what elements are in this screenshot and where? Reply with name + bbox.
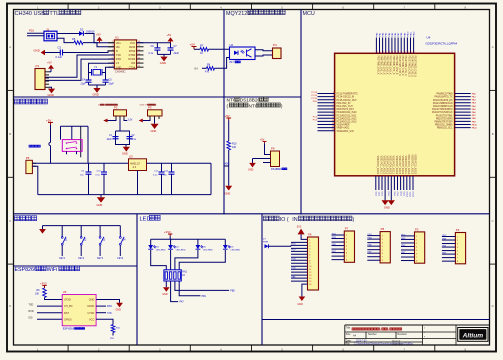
svg-text:GND: GND: [48, 93, 54, 97]
svg-text:Number: Number: [368, 333, 377, 336]
svg-text:GND: GND: [116, 66, 122, 69]
label esp8266 module: [63, 328, 85, 331]
mcu left pin numbers: [332, 92, 334, 131]
connector J1 label: [29, 27, 50, 32]
svg-text:IN: IN: [292, 217, 297, 223]
svg-text:1K: 1K: [200, 52, 203, 55]
title block grid: [345, 325, 490, 345]
svg-text:B: B: [9, 132, 11, 136]
wire opto out2: [255, 55, 273, 56]
svg-text:CTS#: CTS#: [129, 66, 136, 69]
mcu bottom pin names: [376, 154, 416, 174]
svg-text:PB5/I2C0_SMBA: PB5/I2C0_SMBA: [435, 124, 453, 127]
svg-text:RI#: RI#: [131, 62, 136, 65]
svg-text:3: 3: [333, 98, 334, 100]
wire esp pin2: [96, 306, 112, 308]
svg-text:12: 12: [138, 57, 140, 59]
LED D6: [179, 239, 240, 270]
svg-text:6: 6: [333, 108, 334, 110]
svg-text:PB4/TIM1_CH1_X: PB4/TIM1_CH1_X: [379, 56, 381, 75]
svg-text:RTS#: RTS#: [129, 50, 136, 53]
svg-text:PA10: PA10: [472, 123, 478, 126]
svg-text:D: D: [9, 304, 11, 308]
wire led rail: [151, 236, 226, 239]
svg-text:PB3/TIM0_CH0_X: PB3/TIM0_CH0_X: [376, 56, 378, 75]
svg-text:B: B: [492, 132, 494, 136]
svg-text:15: 15: [138, 45, 140, 47]
svg-text:13: 13: [138, 53, 140, 55]
ic U1 pin numbers: [112, 41, 140, 67]
capacitor C11: [153, 163, 165, 194]
svg-text:12: 12: [332, 126, 334, 128]
gnd ds18b20: [248, 159, 256, 172]
svg-text:36: 36: [384, 51, 386, 53]
svg-text:KEY4: KEY4: [117, 258, 124, 260]
svg-text:Size: Size: [346, 333, 351, 336]
LED D4: [168, 239, 186, 270]
optocoupler U2: [230, 43, 256, 64]
switch SW1 label: [29, 145, 40, 147]
svg-text:RXD: RXD: [107, 306, 112, 308]
ic U1 pin names: [116, 42, 136, 69]
gnd main: [97, 195, 106, 207]
capacitor C12: [163, 163, 175, 194]
wire regulator gnd: [137, 171, 139, 195]
svg-text:UD+: UD+: [116, 42, 122, 45]
wire esp gnd pin: [96, 300, 123, 312]
capacitor C6: [149, 43, 161, 55]
capacitor C7: [168, 43, 180, 55]
connector P8 header: [367, 227, 390, 263]
svg-text:PC2/ADC012_IN12: PC2/ADC012_IN12: [337, 117, 358, 120]
wire xo drop: [106, 67, 115, 70]
wire ds18b20 vcc: [265, 143, 271, 154]
svg-text:P2: P2: [114, 106, 118, 110]
switch SW1: [62, 140, 82, 152]
title MCU-IO section: [264, 216, 355, 223]
capacitor C2: [127, 135, 137, 141]
section divider horizontal y318: [262, 319, 490, 321]
svg-text:470: 470: [205, 71, 210, 74]
svg-text:VSS1/PC1_ADC1: VSS1/PC1_ADC1: [379, 156, 382, 175]
svg-text:NTC: NTC: [248, 103, 258, 109]
svg-text:PB8/TIM5_CH1_X: PB8/TIM5_CH1_X: [392, 56, 394, 75]
resistor R8: [202, 64, 215, 74]
capacitor C1: [107, 135, 119, 141]
svg-text:3.3V: 3.3V: [128, 119, 133, 121]
svg-text:U1: U1: [115, 35, 119, 39]
svg-text:U2: U2: [230, 43, 234, 47]
svg-text:C:\Users\Admin\Desktop\GreenHo: C:\Users\Admin\Desktop\GreenHouse\MainBo…: [354, 343, 414, 346]
power flag +5V ntc: [225, 114, 232, 121]
connector P6: [308, 233, 319, 290]
crystal Y1: [89, 66, 106, 75]
svg-text:U4: U4: [427, 36, 431, 40]
mcu top pin names: [376, 56, 415, 78]
svg-text:VSS2/PC11_ADC3: VSS2/PC11_ADC3: [410, 155, 413, 175]
connector P1: [35, 64, 45, 89]
svg-text:U5: U5: [63, 290, 67, 294]
net stub ADC: [225, 163, 230, 166]
svg-text:PC15-OSC32_OUT: PC15-OSC32_OUT: [337, 100, 358, 102]
power flag P1 vcc: [47, 60, 54, 71]
LED D3: [148, 239, 166, 270]
svg-text:GD32F303RCT6_LQFP64: GD32F303RCT6_LQFP64: [426, 41, 458, 45]
svg-text:8: 8: [333, 114, 334, 116]
svg-text:P5: P5: [26, 156, 30, 160]
svg-text:PC3/ADC012_IN13: PC3/ADC012_IN13: [337, 121, 358, 124]
svg-text:4: 4: [333, 101, 334, 103]
svg-text:VSS0/PC0_ADC0: VSS0/PC0_ADC0: [376, 156, 379, 175]
svg-text:34: 34: [378, 51, 380, 53]
svg-text:IN: IN: [195, 66, 198, 70]
svg-text:PA11/USBDM/CAN: PA11/USBDM/CAN: [433, 102, 453, 105]
svg-text:U3: U3: [129, 154, 133, 158]
svg-text:RN1: RN1: [182, 271, 187, 273]
svg-text:Sheet of: Sheet of: [392, 339, 401, 342]
svg-text:C3: C3: [58, 46, 62, 50]
svg-text:2: 2: [333, 95, 334, 97]
svg-text:11: 11: [332, 123, 334, 125]
svg-text:GND: GND: [225, 191, 231, 195]
svg-text:PC13: PC13: [312, 92, 318, 94]
svg-text:22pF: 22pF: [109, 83, 115, 85]
svg-text:PC1/ADC012_IN11: PC1/ADC012_IN11: [337, 114, 357, 117]
wire xi drop: [89, 63, 115, 70]
svg-text:VSS2/PC8_ADC0: VSS2/PC8_ADC0: [401, 156, 404, 175]
svg-text:D2: D2: [80, 28, 84, 32]
ic U4 designator: [427, 36, 431, 40]
connector P9: [271, 147, 280, 167]
gnd P1: [48, 87, 56, 97]
wire crystal left: [88, 70, 90, 80]
svg-text:2023-7-30: 2023-7-30: [356, 340, 367, 342]
resistor R9: [35, 288, 46, 298]
svg-text:R5: R5: [72, 37, 76, 41]
svg-text:*: *: [424, 327, 425, 331]
mcu top pin wires: [376, 38, 413, 54]
connector P5: [26, 156, 33, 174]
gnd header1: [298, 284, 308, 306]
connector P2 header: [401, 228, 425, 264]
svg-text:10: 10: [332, 120, 334, 122]
svg-text:KEY3: KEY3: [97, 258, 104, 260]
switch stub below: [67, 151, 77, 154]
svg-text:VSS1/PC10_ADC2: VSS1/PC10_ADC2: [407, 154, 410, 174]
svg-text:PA8/MCO/TIM0: PA8/MCO/TIM0: [437, 93, 454, 96]
title power section: [15, 99, 48, 104]
svg-text:PC0/ADC012_IN10: PC0/ADC012_IN10: [337, 111, 358, 114]
svg-text:41: 41: [400, 51, 402, 53]
svg-text:NTC: NTC: [227, 98, 237, 104]
resistor R5 path: [57, 37, 114, 47]
svg-text:RST: RST: [64, 312, 69, 315]
wire main rail left: [32, 162, 128, 164]
title block file row: [346, 343, 414, 346]
svg-text:VSS1/PC4_ADC0: VSS1/PC4_ADC0: [389, 156, 392, 175]
ic U1 CH340: [114, 35, 136, 73]
gnd RN1: [162, 281, 169, 296]
switch riser bus: [61, 125, 89, 127]
svg-text:LED-RED: LED-RED: [176, 250, 186, 252]
svg-text:GND: GND: [116, 309, 122, 312]
svg-text:R10: R10: [232, 143, 237, 146]
svg-text:40: 40: [397, 51, 399, 53]
svg-text:Title: Title: [346, 326, 351, 329]
svg-text:+5V: +5V: [96, 32, 101, 36]
svg-text:UTXD: UTXD: [87, 312, 94, 315]
svg-text:VSS1/PC7_ADC3: VSS1/PC7_ADC3: [398, 156, 401, 175]
title MCU section: [303, 11, 315, 17]
svg-text:35: 35: [381, 51, 383, 53]
section divider vertical x301: [300, 10, 302, 215]
mcu top net labels: [376, 31, 415, 37]
svg-text:P6: P6: [308, 233, 312, 237]
svg-text:DTR#: DTR#: [129, 54, 136, 57]
power flag +5V usb: [96, 32, 103, 42]
gnd P3: [151, 119, 159, 133]
mcu right pin wires: [455, 94, 471, 128]
svg-text:PB9/TIM6_CH2_X: PB9/TIM6_CH2_X: [395, 56, 397, 75]
svg-text:PA15/JTDI/TIM1: PA15/JTDI/TIM1: [436, 114, 454, 117]
esp left net labels: [29, 303, 34, 319]
svg-text:14: 14: [138, 49, 140, 51]
label ds18b20: [271, 168, 287, 171]
svg-text:GND: GND: [162, 293, 168, 296]
section divider vertical x224: [223, 10, 225, 215]
svg-text:PC15: PC15: [312, 98, 318, 100]
svg-text:LED-RED: LED-RED: [231, 250, 241, 252]
svg-text:PB15/TIM12_CH0_X: PB15/TIM12_CH0_X: [414, 56, 416, 78]
switch S1: [59, 226, 68, 260]
svg-text:D: D: [492, 304, 494, 308]
wire esp pin3: [96, 313, 112, 315]
svg-text:PC14: PC14: [312, 95, 318, 97]
label 3V3 header: [140, 104, 157, 107]
svg-text:P3: P3: [148, 106, 152, 110]
svg-text:PB12/TIM9_CH1_X: PB12/TIM9_CH1_X: [404, 56, 406, 77]
wire esp pin4: [96, 319, 121, 340]
svg-text:URXD: URXD: [87, 305, 94, 308]
svg-text:VCC: VCC: [130, 42, 135, 45]
wire ntc top: [228, 121, 230, 142]
connector P6 net labels: [292, 244, 297, 279]
svg-text:P8: P8: [381, 227, 385, 231]
indicator D7: [263, 238, 292, 248]
svg-text:GND: GND: [97, 203, 103, 207]
switch S3: [97, 226, 106, 260]
svg-text:PB6/I2C0_SCL: PB6/I2C0_SCL: [437, 128, 453, 130]
svg-text:CH340 USB: CH340 USB: [15, 11, 46, 17]
svg-text:PB12: PB12: [414, 31, 416, 37]
svg-text:P1: P1: [36, 64, 40, 68]
wire ntc bottom: [228, 150, 230, 186]
svg-text:9: 9: [333, 117, 334, 119]
capacitor C5: [103, 78, 115, 85]
svg-text:PD0-OSC_IN: PD0-OSC_IN: [337, 103, 351, 105]
wire esp left pins: [37, 306, 62, 319]
mcu right net labels: [472, 92, 478, 129]
svg-text:PB13/TIM10_CH2_X: PB13/TIM10_CH2_X: [407, 56, 409, 78]
svg-text:GPIO0: GPIO0: [64, 318, 72, 321]
svg-text:PB1: PB1: [202, 296, 207, 298]
mcu right pin names: [432, 93, 453, 130]
svg-text:): ): [352, 217, 354, 223]
connector P3 stubs: [150, 116, 159, 119]
wire P2 mid leg: [119, 119, 121, 131]
svg-text:MQY2128: MQY2128: [226, 11, 250, 17]
gnd crystal: [89, 85, 106, 96]
svg-text:LED-RED: LED-RED: [156, 250, 166, 252]
switch S2: [78, 226, 87, 260]
wire key rail: [43, 225, 121, 227]
svg-text:PC13-TAMPER-RTC: PC13-TAMPER-RTC: [337, 93, 359, 96]
svg-text:PIN: PIN: [110, 338, 114, 340]
ic U5 ESP8266: [62, 290, 96, 326]
svg-text:0.1uF: 0.1uF: [56, 55, 63, 59]
svg-text:PB7/TIM4_CH0_X: PB7/TIM4_CH0_X: [389, 56, 391, 75]
svg-text:CH_PD: CH_PD: [64, 305, 73, 308]
wire main rail right: [147, 163, 212, 194]
svg-text:Revision: Revision: [398, 333, 408, 336]
svg-text:10K: 10K: [232, 146, 237, 149]
svg-text:817: 817: [230, 60, 235, 64]
wire RN1 out3: [175, 281, 235, 293]
svg-text:22pF: 22pF: [81, 83, 87, 85]
svg-text:22uF: 22uF: [174, 52, 180, 55]
svg-text:0.1u: 0.1u: [132, 139, 137, 141]
title LED section: [140, 215, 161, 222]
svg-text:PB10/TIM7_CH3_X: PB10/TIM7_CH3_X: [398, 56, 400, 77]
title NTC section line1: [227, 97, 269, 103]
svg-text:XI: XI: [116, 50, 119, 53]
svg-text:LED: LED: [140, 217, 151, 223]
connector P4: [273, 43, 282, 58]
svg-text:A: A: [9, 45, 11, 49]
wire RN1 out2: [171, 281, 185, 304]
svg-text:ESP-8266: ESP-8266: [63, 328, 75, 331]
resistor R10: [227, 141, 237, 150]
svg-text:45: 45: [412, 51, 414, 53]
svg-text:43: 43: [406, 51, 408, 53]
section divider horizontal y214: [14, 213, 490, 215]
svg-text:10: 10: [138, 66, 140, 68]
svg-text:PB14/TIM11_CH3_X: PB14/TIM11_CH3_X: [410, 56, 412, 78]
svg-text:IO0: IO0: [29, 317, 34, 320]
svg-text:UTXD: UTXD: [64, 299, 71, 302]
svg-text:C: C: [9, 219, 11, 223]
svg-text:CH340C: CH340C: [115, 69, 126, 73]
svg-text:Drawn By:: Drawn By:: [392, 343, 402, 346]
diode D2: [79, 28, 95, 36]
svg-text:RXD: RXD: [116, 58, 121, 61]
wire crystal right: [105, 70, 107, 80]
power flag 3V3 header1: [297, 225, 308, 239]
ic U1 pin stubs: [108, 43, 144, 67]
title block size row: [346, 333, 408, 337]
wire opto input low: [215, 58, 230, 69]
svg-text:PB3/JTDO/SPI0: PB3/JTDO/SPI0: [436, 118, 453, 120]
svg-text:GND: GND: [93, 92, 99, 96]
connector P3: [148, 106, 163, 116]
resistor network RN1: [164, 270, 188, 281]
svg-text:GND: GND: [384, 206, 390, 210]
svg-text:PB6/TIM3_CH3_X: PB6/TIM3_CH3_X: [386, 56, 388, 75]
svg-text:*: *: [424, 335, 425, 339]
title NTC section line2: [227, 103, 283, 109]
title block title row: [346, 326, 402, 331]
net label IN: [195, 66, 198, 70]
svg-text:PB4/NJTRST/SPI: PB4/NJTRST/SPI: [434, 122, 452, 124]
altium logo: [458, 328, 488, 342]
vcc tap P3: [139, 119, 150, 123]
title MQY relay section: [226, 10, 285, 17]
svg-text:PC12: PC12: [413, 191, 415, 197]
power flag +5V ch340: [167, 33, 174, 43]
svg-text:VCC: VCC: [89, 318, 94, 321]
svg-text:GND: GND: [298, 303, 304, 306]
svg-text:File:: File:: [346, 344, 351, 346]
svg-text:1K: 1K: [182, 275, 185, 277]
power flag +5V relay: [190, 43, 197, 50]
svg-text:): ): [388, 327, 389, 331]
svg-text:GND: GND: [248, 169, 254, 172]
svg-text:KEY2: KEY2: [78, 258, 85, 260]
wire R9 to esp: [45, 298, 63, 300]
connector P2 stubs: [116, 116, 124, 119]
power flag +3V3 esp: [40, 282, 47, 288]
svg-text:VSS2/PC5_ADC1: VSS2/PC5_ADC1: [392, 156, 395, 175]
section divider vertical x137: [136, 214, 138, 345]
svg-text:DCD#: DCD#: [128, 58, 135, 61]
svg-text:P10: P10: [29, 29, 34, 33]
wire usb input: [27, 33, 44, 36]
mcu left pin names: [337, 93, 359, 133]
svg-text:P4: P4: [273, 43, 277, 47]
svg-text:Date:: Date:: [346, 339, 352, 342]
section divider horizontal y264: [14, 265, 138, 267]
ic U4 part number: [426, 41, 458, 45]
svg-text:NRST/SYS_RST: NRST/SYS_RST: [337, 109, 355, 111]
svg-text:*: *: [424, 331, 425, 335]
connector P5 stubs: [32, 163, 36, 166]
usb connector J1: [44, 31, 57, 41]
wire rxd drop: [45, 59, 114, 80]
section divider vertical x262: [261, 214, 263, 345]
section divider horizontal y97: [14, 96, 302, 98]
svg-text:WiFi: WiFi: [47, 267, 58, 273]
switch S4: [117, 226, 126, 260]
svg-text:Altium: Altium: [462, 332, 484, 339]
title key section: [15, 216, 37, 221]
wire ds18b20 data: [253, 158, 271, 160]
svg-text:GND: GND: [89, 299, 95, 302]
svg-text:AMS1117: AMS1117: [130, 162, 141, 165]
svg-text:RXD: RXD: [29, 310, 34, 313]
mcu bottom net labels: [376, 191, 415, 197]
title block middle dots: [424, 327, 425, 340]
gnd ch340 caps: [157, 54, 170, 65]
svg-text:GND: GND: [160, 61, 166, 65]
svg-text:+5V: +5V: [167, 33, 172, 37]
gnd arrow usb: [34, 48, 46, 55]
title ESP8266 section: [15, 266, 80, 273]
svg-text:33: 33: [375, 51, 377, 53]
svg-text:VSS0/PC6_ADC2: VSS0/PC6_ADC2: [395, 156, 398, 175]
svg-text:LED-RED: LED-RED: [203, 250, 213, 252]
svg-text:PB11/TIM8_CH0_X: PB11/TIM8_CH0_X: [401, 56, 403, 76]
svg-text:PA7: PA7: [180, 301, 185, 304]
